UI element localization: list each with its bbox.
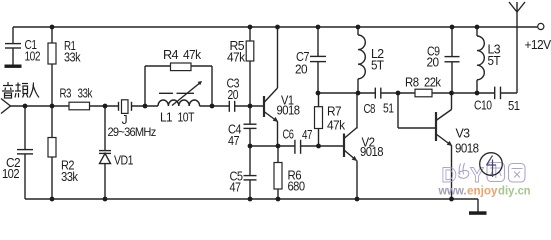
- resistor R4 (parallel with L1): [145, 48, 212, 106]
- svg-text:22k: 22k: [424, 76, 442, 90]
- capacitor C8: [364, 88, 395, 116]
- watermark DIY logo: [442, 163, 526, 188]
- label 音频入 (audio input) drawn strokes: [2, 82, 39, 98]
- svg-text:47k: 47k: [227, 51, 246, 65]
- svg-text:47k: 47k: [183, 48, 202, 62]
- svg-text:C8: C8: [364, 102, 376, 116]
- svg-text:47: 47: [302, 128, 312, 142]
- svg-text:Y: Y: [470, 164, 484, 187]
- resistor R7: [315, 93, 346, 146]
- svg-text:20: 20: [295, 63, 308, 77]
- svg-text:R8: R8: [405, 76, 419, 90]
- svg-text:9018: 9018: [277, 104, 301, 118]
- watermark circle emblem: [480, 153, 503, 177]
- resistor R1: [48, 27, 81, 106]
- 频: [17, 83, 19, 92]
- transistor V3 9018: [436, 93, 479, 199]
- resistor R5: [227, 27, 254, 106]
- svg-text:10T: 10T: [178, 111, 195, 125]
- antenna: [509, 2, 525, 93]
- svg-text:+12V: +12V: [525, 38, 551, 52]
- svg-text:9018: 9018: [455, 142, 479, 156]
- svg-text:L1: L1: [160, 111, 173, 125]
- svg-text:diy: diy: [498, 186, 515, 198]
- wire tank line 1: [318, 92, 415, 94]
- svg-text:47: 47: [230, 181, 242, 195]
- svg-text:33k: 33k: [61, 170, 79, 184]
- svg-text:29~36MHz: 29~36MHz: [108, 125, 157, 139]
- svg-text:R3: R3: [60, 87, 72, 101]
- svg-text:enjoy: enjoy: [467, 186, 498, 198]
- varactor diode VD1: [99, 106, 134, 199]
- svg-text:47: 47: [228, 134, 240, 148]
- svg-text:20: 20: [427, 56, 440, 70]
- capacitor C5: [230, 146, 257, 199]
- svg-text:VD1: VD1: [114, 154, 134, 168]
- wire bottom ground rail: [25, 198, 478, 200]
- capacitor C4: [228, 106, 257, 148]
- svg-text:www.: www.: [438, 186, 467, 198]
- svg-text:D: D: [442, 164, 457, 187]
- crystal J: [108, 100, 157, 139]
- svg-text:9018: 9018: [360, 145, 384, 159]
- svg-text:102: 102: [2, 167, 20, 181]
- wire V3 base feed: [398, 93, 436, 128]
- capacitor C9: [427, 27, 460, 93]
- capacitor C3: [227, 77, 240, 112]
- svg-text:V3: V3: [456, 127, 471, 141]
- node dots emitter line: [248, 144, 321, 149]
- svg-text:R4: R4: [163, 48, 179, 62]
- resistor R6: [274, 146, 305, 199]
- node dots main line: [23, 104, 253, 109]
- inductor L1 (adjustable, 10T): [158, 81, 202, 125]
- ground under C1: [5, 65, 22, 68]
- svg-text:102: 102: [25, 50, 41, 64]
- node dots tank line: [316, 91, 480, 96]
- svg-text:C6: C6: [283, 128, 294, 142]
- 入: [30, 83, 34, 98]
- wire emitter line V1: [250, 145, 344, 147]
- svg-text:5T: 5T: [371, 59, 384, 73]
- capacitor C2: [2, 106, 33, 199]
- resistor R3: [60, 87, 94, 110]
- svg-text:51: 51: [383, 102, 394, 116]
- node dots bottom rail: [50, 197, 454, 202]
- svg-text:5T: 5T: [488, 54, 501, 68]
- transistor V1 9018: [264, 27, 300, 146]
- wire top supply rail: [13, 26, 538, 28]
- inductor L2 5T: [358, 27, 384, 93]
- svg-text:.cn: .cn: [515, 186, 531, 198]
- capacitor C6: [283, 128, 313, 154]
- watermark url www.enjoydiy.cn: [438, 186, 531, 198]
- svg-text:R7: R7: [327, 105, 342, 119]
- resistor R2: [48, 106, 79, 199]
- inductor L3 5T: [477, 27, 501, 93]
- node dots top rail: [50, 25, 480, 30]
- +12V terminal: [525, 23, 551, 52]
- ground symbol right: [469, 199, 487, 215]
- resistor R8: [405, 76, 495, 97]
- wire main signal line segments: [10, 105, 264, 107]
- input terminal arrow 音频入: [1, 99, 11, 114]
- svg-text:33k: 33k: [64, 51, 81, 65]
- capacitor C7: [295, 27, 326, 93]
- capacitor C1: [5, 27, 41, 65]
- svg-text:20: 20: [228, 88, 239, 102]
- transistor V2 9018: [344, 93, 384, 199]
- svg-text:51: 51: [508, 99, 520, 113]
- svg-text:47k: 47k: [327, 119, 346, 133]
- svg-text:33k: 33k: [78, 87, 94, 101]
- capacitor C10: [474, 87, 520, 113]
- svg-text:C10: C10: [474, 99, 492, 113]
- svg-text:680: 680: [288, 180, 306, 194]
- 音: [7, 82, 9, 85]
